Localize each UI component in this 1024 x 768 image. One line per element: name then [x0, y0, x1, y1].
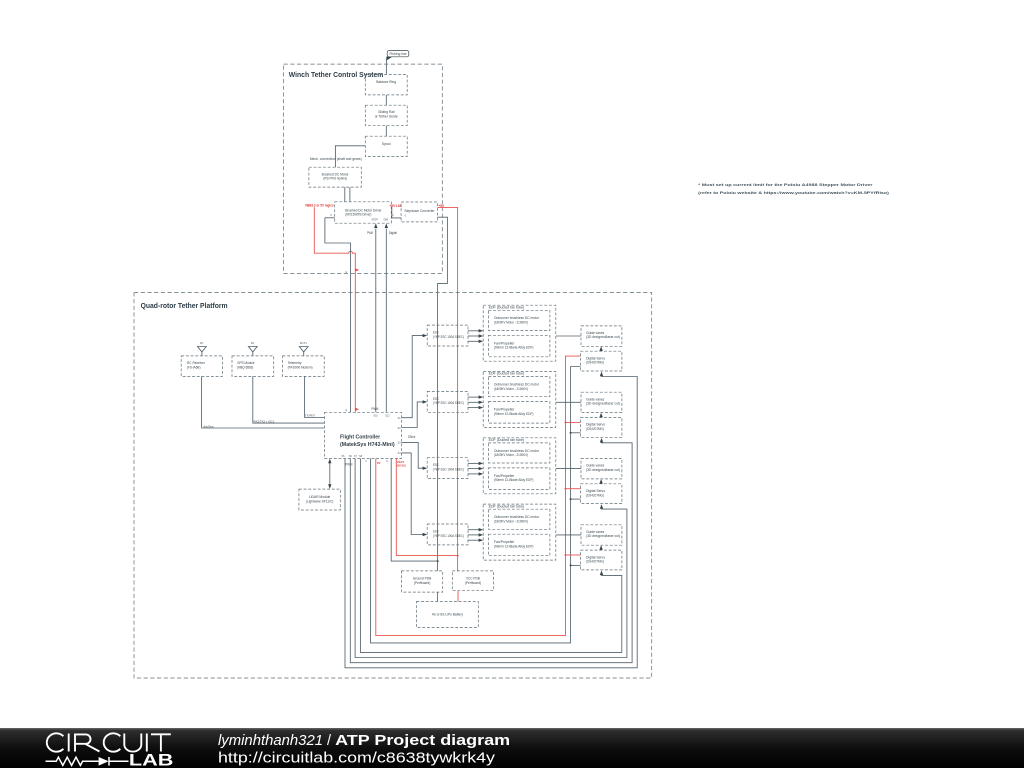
svg-text:Quad-rotor Tether Platform: Quad-rotor Tether Platform	[141, 301, 228, 310]
svg-text:(3D designed/laser cut): (3D designed/laser cut)	[586, 468, 620, 472]
block Fan/Propeller 1	[488, 335, 550, 357]
wire motor to driver B	[349, 187, 351, 202]
svg-text:(Perfboard): (Perfboard)	[465, 581, 481, 585]
wire black GND from stepdown down through ESCs to Ground PDB	[438, 217, 448, 571]
wire red 5V stub to Digital Servo 4	[566, 554, 581, 556]
net label Fishing line	[386, 51, 409, 61]
block Digital Servo 3	[581, 484, 622, 504]
svg-text:EDF (Ducted fan tube): EDF (Ducted fan tube)	[489, 305, 525, 309]
wires ESC 4 three phase arrows to EDF 4	[468, 528, 483, 542]
wire RC receiver to flight controller	[202, 376, 325, 428]
block Spool	[365, 136, 407, 156]
ESC 3 (YEP ESC 100A SBEC)	[427, 458, 468, 479]
section box Winch Tether Control System	[284, 64, 443, 273]
svg-text:(1800KV Motor - 2100KV): (1800KV Motor - 2100KV)	[494, 453, 528, 457]
group box EDF 2	[483, 372, 556, 428]
svg-text:(1800KV Motor - 2100KV): (1800KV Motor - 2100KV)	[494, 519, 528, 523]
svg-text:Flight Controller: Flight Controller	[340, 435, 381, 441]
wire driver to stepdown converter	[391, 207, 401, 218]
wire PWM S8 from flight controller around bottom to Digital Servo 4	[360, 459, 621, 653]
svg-text:(90mm 12-Blade Alloy EDF): (90mm 12-Blade Alloy EDF)	[494, 346, 534, 350]
block Balance Ring	[365, 75, 407, 95]
block Flight Controller (MatekSys H743-Mini)	[325, 412, 402, 458]
svg-text:Digital: Digital	[389, 231, 397, 235]
svg-text:S12: S12	[385, 415, 390, 418]
antenna Rx at x=201.9	[198, 341, 207, 356]
svg-text:(90mm 12-Blade Alloy EDF): (90mm 12-Blade Alloy EDF)	[494, 412, 534, 416]
svg-text:Balance Ring: Balance Ring	[376, 80, 396, 84]
wire EDF 2 to Guide vanes 2	[556, 401, 581, 403]
wire Balance Ring to Gliding Rail	[385, 95, 387, 105]
group box EDF 4	[483, 504, 556, 560]
annotation note Pololu A4988	[698, 182, 890, 195]
wire ground stub to Digital Servo 3	[571, 498, 581, 500]
block Stepdown Converter	[401, 202, 437, 222]
svg-text:DIR: DIR	[384, 219, 389, 222]
wire Digital to DIR pin	[385, 229, 387, 413]
svg-text:(1800KV Motor - 2100KV): (1800KV Motor - 2100KV)	[494, 387, 528, 391]
svg-text:EDF (Ducted fan tube): EDF (Ducted fan tube)	[489, 504, 525, 508]
wire red 5V stub to Digital Servo 2	[566, 421, 581, 423]
wire EDF 3 to Guide vanes 3	[556, 468, 581, 470]
wire Ground PDB to battery	[437, 592, 439, 601]
svg-text:(RFD900 Modem): (RFD900 Modem)	[288, 366, 313, 370]
svg-text:(MatekSys H743-Mini): (MatekSys H743-Mini)	[340, 442, 395, 448]
block Fan/Propeller 3	[488, 468, 550, 490]
wire VCC PDB to battery red	[457, 591, 459, 602]
block LiDAR Module (Lightware SF11/C)	[299, 489, 340, 510]
net flag red near winch bottom	[355, 268, 359, 271]
wire PWM to STEP pin	[375, 229, 377, 413]
svg-text:S10: S10	[374, 415, 379, 418]
svg-text:(MX1508TB Driver): (MX1508TB Driver)	[345, 213, 371, 217]
wire red 5V from flight controller around bottom to Digital Servos	[376, 356, 581, 635]
wire Telemetry to flight controller	[305, 376, 325, 417]
block Guide vanes 2	[581, 392, 622, 412]
svg-text:(YEP ESC 100A SBEC): (YEP ESC 100A SBEC)	[433, 335, 464, 339]
block Fan/Propeller 4	[488, 534, 550, 556]
svg-text:RxTx: RxTx	[300, 341, 308, 345]
svg-text:(3D designed/laser cut): (3D designed/laser cut)	[586, 335, 620, 339]
svg-text:(DS4207MG): (DS4207MG)	[586, 560, 604, 564]
wire arrow Digital Servo 4 to Guide vanes 4	[600, 548, 602, 551]
wire servo ground from flight controller around bottom to Digital Servos	[371, 367, 581, 643]
svg-text:http://circuitlab.com/c8638tyw: http://circuitlab.com/c8638tywkrk4y	[218, 751, 496, 767]
svg-text:PWM: PWM	[345, 462, 352, 466]
wire red 5V stub to Digital Servo 3	[566, 488, 581, 490]
block Guide vanes 4	[581, 525, 622, 545]
svg-text:(DS4207MG): (DS4207MG)	[586, 361, 604, 365]
svg-text:(refer to Pololu website & htt: (refer to Pololu website & https://www.y…	[698, 190, 890, 195]
wire PWM S7 from flight controller around bottom to Digital Servo 3	[355, 459, 627, 658]
block Brushed DC Motor (RS PRO Hybrid)	[309, 167, 361, 187]
svg-text:(M8Q-5883): (M8Q-5883)	[237, 366, 253, 370]
block Gliding Rail or Tether Guide	[365, 105, 407, 126]
svg-text:(DS4207MG): (DS4207MG)	[586, 493, 604, 497]
wire arrow Digital Servo 1 to Guide vanes 1	[600, 350, 602, 353]
svg-text:(YEP ESC 100A SBEC): (YEP ESC 100A SBEC)	[433, 534, 464, 538]
group box EDF 1	[483, 305, 556, 361]
svg-text:(YEP ESC 100A SBEC): (YEP ESC 100A SBEC)	[433, 401, 464, 405]
pin stub driver left	[325, 217, 335, 219]
svg-text:G: G	[345, 409, 347, 412]
svg-text:Mech. connection (shaft and ge: Mech. connection (shaft and gears)	[310, 157, 362, 161]
wire EDF 1 to Guide vanes 1	[556, 335, 581, 337]
svg-text:(RS PRO Hybrid): (RS PRO Hybrid)	[323, 177, 347, 181]
svg-text:PWM: PWM	[371, 407, 378, 411]
block 4S or 6S LiPo Battery	[416, 602, 478, 628]
group box EDF 3	[483, 438, 556, 494]
junction red VBAT join	[457, 555, 459, 557]
wire ground stub to Digital Servo 4	[571, 564, 581, 566]
svg-text:Winch Tether Control System: Winch Tether Control System	[289, 70, 384, 79]
wire Gliding Rail to Spool	[385, 126, 387, 137]
wires ESC 3 three phase arrows to EDF 3	[468, 462, 483, 476]
wire double arrow flight controller to LiDAR	[329, 463, 331, 485]
svg-text:4S or 6S LiPo Battery: 4S or 6S LiPo Battery	[432, 613, 464, 617]
svg-text:Gliding Rail: Gliding Rail	[378, 110, 395, 114]
block Outrunner brushless DC motor 2	[488, 377, 550, 397]
svg-text:EDF (Ducted fan tube): EDF (Ducted fan tube)	[489, 438, 525, 442]
wire PWM S6 from flight controller around bottom to Digital Servo 2	[350, 441, 632, 663]
wires ESC 1 three phase arrows to EDF 1	[468, 329, 483, 343]
junction black GND join	[437, 560, 439, 562]
antenna Rx at x=252.8	[248, 341, 257, 356]
block Outrunner brushless DC motor 4	[488, 509, 550, 529]
block Digital Servo 2	[581, 418, 622, 438]
svg-text:(1800KV Motor - 2100KV): (1800KV Motor - 2100KV)	[494, 321, 528, 325]
svg-text:5V: 5V	[377, 461, 381, 465]
footer bar	[0, 728, 1024, 768]
block Brushed DC Motor Driver	[335, 202, 392, 223]
svg-text:(90mm 12-Blade Alloy EDF): (90mm 12-Blade Alloy EDF)	[494, 478, 534, 482]
svg-text:(90mm 12-Blade Alloy EDF): (90mm 12-Blade Alloy EDF)	[494, 545, 534, 549]
block Guide vanes 3	[581, 459, 622, 479]
svg-text:(FS-iA6B): (FS-iA6B)	[187, 366, 201, 370]
section box Quad-rotor Tether Platform	[134, 293, 652, 678]
wire EDF 4 to Guide vanes 4	[556, 534, 581, 536]
svg-text:+5V1.5A: +5V1.5A	[389, 204, 402, 208]
wire red VBAT from flight controller to VCC bus	[396, 459, 457, 556]
svg-text:(Perfboard): (Perfboard)	[414, 581, 430, 585]
wire arrow Digital Servo 3 to Guide vanes 3	[600, 482, 602, 485]
wire S3 to ESC 3	[402, 442, 424, 468]
svg-text:lyminhthanh321 / ATP Project d: lyminhthanh321 / ATP Project diagram	[218, 733, 510, 749]
wire PWM S5 from flight controller around bottom to Digital Servo 1	[345, 375, 637, 668]
wire motor to driver A	[344, 187, 346, 202]
wire S4 to ESC 4	[402, 453, 424, 535]
svg-text:(4S 6S): (4S 6S)	[397, 464, 406, 468]
block Guide vanes 1	[581, 326, 622, 346]
wire red +5V from stepdown down to VCC PDB	[438, 207, 458, 571]
block GPS Module (M8Q-5883)	[232, 356, 274, 377]
block Digital Servo 1	[581, 351, 622, 371]
svg-text:Fishing line: Fishing line	[390, 52, 407, 56]
svg-text:* Must set up current limit fo: * Must set up current limit for the Polo…	[698, 182, 873, 187]
block Telemetry (RFD900 Modem)	[283, 356, 325, 377]
svg-text:RX2/TX2 + I2C1: RX2/TX2 + I2C1	[254, 419, 275, 423]
ESC 4 (YEP ESC 100A SBEC)	[427, 524, 468, 545]
svg-text:LiDAR Module: LiDAR Module	[309, 495, 330, 499]
block Outrunner brushless DC motor 3	[488, 443, 550, 463]
wires ESC 2 three phase arrows to EDF 2	[468, 395, 483, 409]
svg-text:PWM: PWM	[367, 231, 373, 235]
svg-text:Stepdown Converter: Stepdown Converter	[404, 209, 435, 213]
wire arrow Digital Servo 2 to Guide vanes 2	[600, 416, 602, 419]
block VCC PDB (Perfboard)	[452, 571, 493, 591]
ESC 1 (YEP ESC 100A SBEC)	[427, 325, 468, 346]
svg-text:LAB: LAB	[129, 752, 174, 768]
wire fishing line to Balance Ring	[385, 60, 387, 75]
block Fan/Propeller 2	[488, 402, 550, 424]
svg-text:(DS4207MG): (DS4207MG)	[586, 427, 604, 431]
svg-text:Ibus/Sbus: Ibus/Sbus	[203, 424, 214, 428]
svg-text:G: G	[386, 460, 388, 463]
antenna RxTx at x=303.7	[299, 341, 308, 356]
svg-text:(3D designed/laser cut): (3D designed/laser cut)	[586, 534, 620, 538]
logo resistor and diode symbol	[46, 757, 129, 766]
svg-text:STEP: STEP	[371, 219, 378, 222]
wire S1 to ESC 1	[402, 336, 424, 418]
svg-text:(YEP ESC 100A SBEC): (YEP ESC 100A SBEC)	[433, 468, 464, 472]
svg-text:EDF (Ducted fan tube): EDF (Ducted fan tube)	[489, 372, 525, 376]
wire S2 to ESC 2	[402, 402, 424, 428]
svg-text:VBB3.3 or 5V logics: VBB3.3 or 5V logics	[305, 204, 334, 208]
wire G from flight controller to ground bus	[391, 459, 437, 562]
block Ground PDB (Perfboard)	[402, 571, 443, 592]
svg-text:G: G	[345, 271, 347, 274]
net flag red near flight controller top	[355, 408, 359, 411]
wire mech connection Spool to Brushed DC Motor	[335, 146, 365, 167]
block Outrunner brushless DC motor 1	[488, 310, 550, 330]
svg-text:Spool: Spool	[382, 142, 391, 146]
logo CIRCUIT lettering	[47, 733, 171, 751]
svg-text:(Lightware SF11/C): (Lightware SF11/C)	[306, 499, 334, 503]
wire red 5V logic from label down to flight controller	[314, 207, 355, 412]
svg-text:TX7/RX7: TX7/RX7	[305, 414, 315, 418]
wire black GND from driver down to flight controller	[325, 218, 351, 412]
svg-text:(3D designed/laser cut): (3D designed/laser cut)	[586, 402, 620, 406]
wire GPS to flight controller	[253, 376, 325, 423]
svg-text:or Tether Guide: or Tether Guide	[375, 115, 398, 119]
wire ground stub to Digital Servo 2	[571, 432, 581, 434]
block Digital Servo 4	[581, 550, 622, 570]
block RC Receiver (FS-iA6B)	[181, 356, 222, 377]
svg-text:DShot: DShot	[408, 435, 415, 439]
ESC 2 (YEP ESC 100A SBEC)	[427, 391, 468, 412]
